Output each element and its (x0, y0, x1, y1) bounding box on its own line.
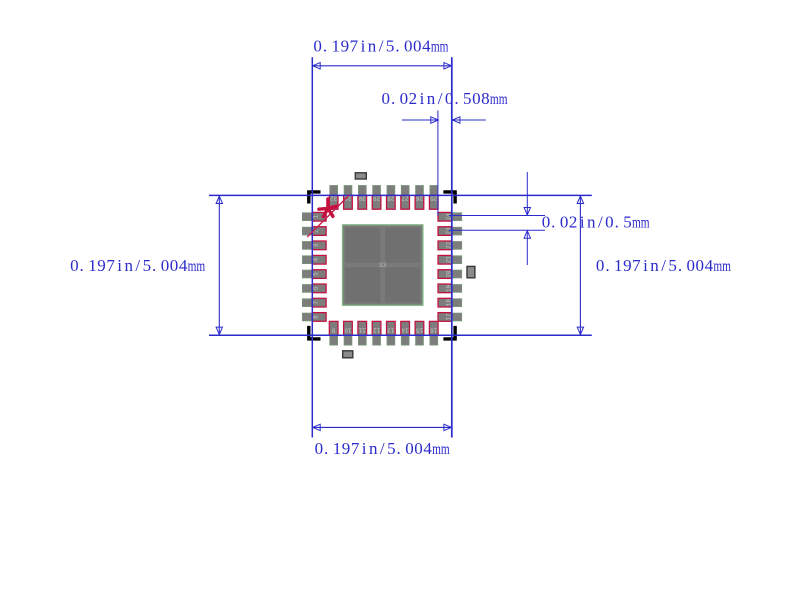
pad 3 (303, 241, 327, 250)
dimension top 0.197in/5.004mm (312, 36, 452, 69)
corner bracket top-left (309, 192, 321, 204)
svg-text:33: 33 (379, 262, 387, 269)
svg-text:15: 15 (416, 327, 424, 334)
dimension bottom 0.197in/5.004mm (312, 424, 452, 458)
pad 5 (303, 270, 327, 279)
svg-text:11: 11 (358, 327, 366, 334)
dimension left 0.197in/5.004mm (70, 195, 222, 335)
pad 12 (372, 321, 381, 345)
pad 20 (438, 270, 462, 279)
dimension 0.02in/0.508mm (pin length) (382, 89, 508, 216)
pad 4 (303, 255, 327, 264)
svg-text:9: 9 (332, 327, 336, 334)
pad 6 (303, 284, 327, 293)
pad 1 (303, 212, 327, 221)
svg-text:0.197in/5.004mm: 0.197in/5.004mm (596, 256, 731, 275)
corner bracket bottom-right (443, 326, 455, 339)
pad 31 (344, 186, 353, 210)
pad 10 (344, 321, 353, 345)
body outline / extension line top (209, 194, 592, 196)
svg-text:0.197in/5.004mm: 0.197in/5.004mm (313, 36, 448, 55)
pad 24 (438, 212, 462, 221)
svg-text:0.197in/5.004mm: 0.197in/5.004mm (315, 439, 450, 458)
pad 22 (438, 241, 462, 250)
svg-text:0.197in/5.004mm: 0.197in/5.004mm (70, 256, 205, 275)
svg-text:6: 6 (312, 286, 319, 290)
fiducial marker bottom (343, 351, 353, 358)
body outline / extension line right (451, 57, 453, 437)
pad 19 (438, 284, 462, 293)
pad 8 (303, 313, 327, 322)
pad 26 (415, 186, 424, 210)
pin 1 marker asterisk (319, 199, 337, 217)
pad 21 (438, 255, 462, 264)
corner bracket bottom-left (309, 326, 321, 339)
svg-text:1: 1 (312, 215, 319, 219)
svg-text:13: 13 (387, 327, 395, 334)
pad 32 (329, 186, 338, 210)
pad 27 (401, 186, 410, 210)
dimension pitch 0.02in/0.5mm (449, 172, 650, 265)
svg-text:10: 10 (344, 327, 352, 334)
pad 11 (358, 321, 367, 345)
svg-text:0.02in/0.508mm: 0.02in/0.508mm (382, 89, 508, 108)
pad 9 (329, 321, 338, 345)
pad 23 (438, 227, 462, 236)
pad 28 (387, 186, 396, 210)
body outline / extension line left (311, 57, 313, 437)
pad 7 (303, 298, 327, 307)
svg-text:4: 4 (312, 258, 319, 262)
pad 15 (415, 321, 424, 345)
fiducial marker right (467, 266, 475, 277)
pad 29 (372, 186, 381, 210)
pad 2 (303, 227, 327, 236)
svg-text:3: 3 (312, 243, 319, 247)
thermal pad 33 (343, 225, 423, 305)
pad 14 (401, 321, 410, 345)
pad 13 (387, 321, 396, 345)
pad 25 (429, 186, 438, 210)
svg-text:5: 5 (312, 272, 319, 276)
dimension right 0.197in/5.004mm (577, 195, 731, 335)
pad 18 (438, 298, 462, 307)
pad 16 (429, 321, 438, 345)
svg-text:14: 14 (401, 327, 409, 334)
svg-text:16: 16 (430, 327, 438, 334)
corner bracket top-right (443, 192, 455, 204)
svg-text:12: 12 (373, 327, 381, 334)
pin 1 marker diagonal line (307, 195, 349, 237)
svg-text:8: 8 (312, 315, 319, 319)
pad 17 (438, 313, 462, 322)
body outline / extension line bottom (209, 334, 592, 336)
fiducial marker top (355, 173, 366, 179)
pad 30 (358, 186, 367, 210)
svg-text:7: 7 (312, 301, 319, 305)
